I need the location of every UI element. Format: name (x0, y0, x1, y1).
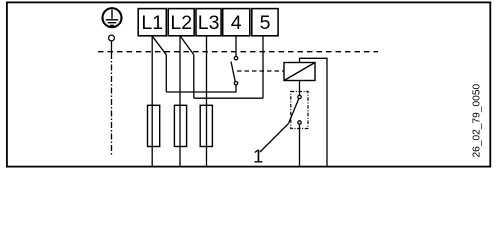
NO contact in dashed box (289, 95, 302, 124)
wire: earth stub (111, 41, 113, 53)
relay coil (284, 63, 315, 81)
fuse F1 (148, 105, 160, 146)
fuse F3 (200, 105, 212, 146)
node: earth connection point (109, 35, 115, 41)
wire: L2 branch vertical (193, 55, 195, 98)
wire: L1 phase down to fuse (151, 36, 153, 167)
wire: earth dash-dot line (111, 53, 113, 156)
wire: L3 phase down to fuse (206, 36, 208, 167)
wire: terminal 5 down (262, 36, 264, 98)
wire: L2 branch horizontal to terminal 5 wire (194, 97, 263, 99)
wire: L1 branch diagonal (152, 36, 166, 55)
protective earth symbol (103, 8, 122, 27)
wire: relay coil bottom to contact (299, 81, 301, 96)
terminal L2 (168, 9, 194, 36)
dashed mechanical link to relay coil (237, 70, 284, 72)
wire: contact bottom down to frame (299, 124, 301, 166)
fuse F2 (174, 105, 186, 146)
terminal L3 (196, 9, 221, 36)
svg-text:L2: L2 (170, 12, 192, 34)
svg-text:L1: L1 (141, 12, 163, 34)
svg-text:L3: L3 (198, 12, 220, 34)
dashed enclosure box of external contact (291, 92, 308, 129)
terminal L1 (138, 9, 166, 36)
NO contact under terminal 4 (231, 57, 238, 85)
svg-text:1: 1 (253, 146, 263, 167)
svg-text:26_02_79_0050: 26_02_79_0050 (472, 84, 483, 158)
wire: L1 branch horizontal to contact (166, 85, 236, 92)
wire: L2 phase down to fuse (179, 36, 181, 167)
terminal 4 (223, 9, 250, 36)
wire: L1 branch vertical (165, 55, 167, 92)
wire: L2 branch diagonal (180, 36, 194, 55)
svg-text:4: 4 (231, 12, 242, 34)
wire: terminal 4 down to contact (235, 36, 237, 57)
wire: relay coil top to right rail (300, 58, 328, 166)
svg-text:5: 5 (260, 12, 271, 34)
dashed boundary line (98, 51, 378, 53)
leader line of label 1 (260, 124, 289, 153)
terminal 5 (252, 9, 278, 36)
